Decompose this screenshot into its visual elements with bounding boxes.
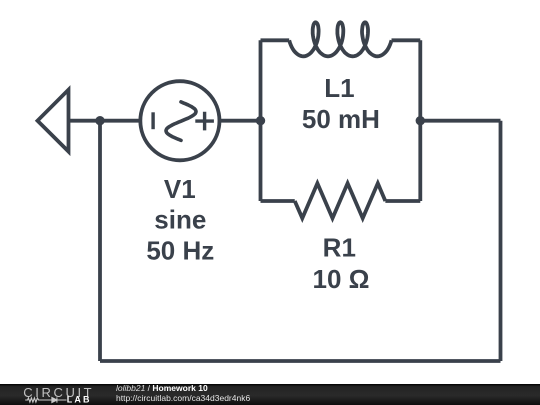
wire <box>100 359 501 363</box>
svg-text:sine: sine <box>154 205 206 235</box>
logo diode glyph <box>52 397 67 402</box>
svg-text:50 Hz: 50 Hz <box>146 236 214 266</box>
node A <box>95 116 104 125</box>
svg-text:L1: L1 <box>324 73 354 103</box>
logo resistor glyph <box>25 398 52 402</box>
wire <box>420 119 500 123</box>
svg-text:V1: V1 <box>164 174 196 204</box>
node C <box>416 116 425 125</box>
wire <box>69 119 142 123</box>
svg-text:LAB: LAB <box>67 394 92 404</box>
node B <box>256 116 265 125</box>
svg-text:R1: R1 <box>323 233 356 263</box>
svg-text:10 Ω: 10 Ω <box>313 264 370 294</box>
resistor R1 <box>295 183 386 218</box>
wire <box>261 199 295 203</box>
wire <box>385 199 420 203</box>
wire <box>392 38 421 42</box>
wire <box>499 121 503 361</box>
wire <box>98 121 102 361</box>
footer title <box>116 384 250 404</box>
wire <box>261 38 290 42</box>
svg-text:50 mH: 50 mH <box>302 104 380 134</box>
inductor L1 <box>289 22 391 56</box>
wire <box>418 40 422 201</box>
ground <box>38 90 69 152</box>
voltage source V1 <box>140 81 219 160</box>
wire <box>221 119 261 123</box>
wire <box>259 40 263 201</box>
